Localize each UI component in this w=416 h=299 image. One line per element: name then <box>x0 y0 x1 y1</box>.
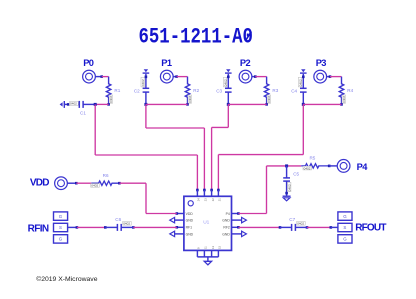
svg-text:P4: P4 <box>226 212 230 216</box>
wire C4 to R4 <box>303 103 341 105</box>
capacitor C4 <box>301 69 305 72</box>
svg-text:15: 15 <box>218 246 222 249</box>
RFIN pad S <box>54 223 68 231</box>
svg-text:21: 21 <box>218 198 222 201</box>
svg-text:G: G <box>343 214 347 219</box>
svg-text:C2: C2 <box>134 89 140 94</box>
svg-text:GND: GND <box>222 232 230 236</box>
wire P2 net horizontal <box>212 126 229 128</box>
svg-text:RFIN: RFIN <box>28 224 49 235</box>
U1 bottom pin 11 <box>203 250 205 257</box>
wire R6 to U1 VDD <box>119 182 146 184</box>
svg-text:0402: 0402 <box>304 166 311 170</box>
ground (C5) <box>283 196 291 197</box>
svg-text:RF2: RF2 <box>223 226 230 230</box>
node P4/C5 junction <box>285 164 288 167</box>
wire P2 net vertical <box>227 104 229 127</box>
U1 bottom pin 9 <box>196 250 198 257</box>
connector P1 <box>160 70 173 83</box>
svg-text:0402: 0402 <box>287 184 291 191</box>
RFIN pad G <box>54 235 68 243</box>
wire P0 to R1 <box>102 76 109 78</box>
svg-text:13: 13 <box>211 246 215 249</box>
svg-text:U1: U1 <box>203 220 209 226</box>
wire P0 net to U1 pin <box>196 155 198 190</box>
U1 pin GND (left lower) <box>175 233 184 235</box>
U1 pin VDD (left) <box>177 213 184 215</box>
capacitor C7 <box>279 226 282 229</box>
svg-text:0402: 0402 <box>298 79 302 86</box>
svg-text:G: G <box>59 237 63 242</box>
wire C2 to R2 <box>146 103 188 105</box>
svg-text:GND: GND <box>186 219 194 223</box>
connector P2 <box>239 70 252 83</box>
resistor R2 <box>185 77 189 105</box>
U1 pin RF1 <box>177 226 184 228</box>
wire VDD to U1 pin <box>146 213 177 215</box>
wire P2 to R3 <box>255 76 266 78</box>
capacitor C5 <box>286 166 288 178</box>
svg-text:S: S <box>59 225 62 230</box>
wire P4 net vertical <box>266 166 268 214</box>
connector P0 <box>83 70 96 83</box>
svg-text:G: G <box>59 214 63 219</box>
RFOUT pad G <box>338 212 352 220</box>
svg-text:11: 11 <box>204 246 208 249</box>
op-amp U1 body <box>184 196 232 250</box>
svg-text:P3: P3 <box>316 58 327 68</box>
wire P0 net horizontal <box>95 154 197 156</box>
RFIN pad G <box>54 212 68 220</box>
svg-text:0402: 0402 <box>342 96 346 103</box>
svg-text:651-1211-A0: 651-1211-A0 <box>139 25 253 51</box>
svg-text:0402: 0402 <box>297 221 304 225</box>
wire C3 to R3 <box>228 103 266 105</box>
capacitor C3 <box>226 69 230 72</box>
U1 top pin 23 <box>203 189 206 192</box>
svg-text:R4: R4 <box>347 88 353 93</box>
svg-text:R1: R1 <box>114 88 120 93</box>
svg-text:GND: GND <box>222 219 230 223</box>
svg-text:C4: C4 <box>291 89 297 94</box>
svg-text:C6: C6 <box>115 217 121 222</box>
wire U1 RF2 to C7 <box>238 226 280 228</box>
wire P1 net to U1 pin <box>203 128 205 190</box>
svg-text:R3: R3 <box>272 88 278 93</box>
svg-text:0402: 0402 <box>223 79 227 86</box>
svg-text:P0: P0 <box>83 58 94 68</box>
connector P4 <box>329 165 337 167</box>
svg-text:23: 23 <box>204 198 208 201</box>
svg-text:C5: C5 <box>293 172 299 177</box>
U1 pin RF2 <box>232 226 239 228</box>
wire RFOUT S pad stub <box>331 226 338 228</box>
node P0/C1/R1 junction <box>94 103 97 106</box>
wire P3 net to U1 pin <box>217 155 219 190</box>
resistor R5 <box>301 164 329 168</box>
U1 top pin 24 <box>196 189 199 192</box>
resistor R1 <box>106 77 110 105</box>
wire U1 P4 pin horizontal <box>238 213 266 215</box>
svg-text:C1: C1 <box>80 111 86 116</box>
U1 pin P4 (right) <box>232 213 239 215</box>
connector VDD <box>55 177 68 190</box>
svg-text:RFOUT: RFOUT <box>355 223 386 234</box>
U1 bottom pin 15 <box>217 250 219 257</box>
wire P1 net horizontal <box>146 127 205 129</box>
wire P1 to R2 <box>177 76 188 78</box>
wire C7 to RFOUT <box>307 226 331 228</box>
node P3/C4/R4 junction <box>302 103 305 106</box>
svg-text:0402: 0402 <box>109 96 113 103</box>
ground <box>204 261 211 265</box>
wire RFIN to C6 <box>77 226 105 228</box>
node P1/C2/R2 junction <box>144 103 147 106</box>
svg-text:©2019 X-Microwave: ©2019 X-Microwave <box>36 275 98 283</box>
svg-text:0402: 0402 <box>91 184 98 188</box>
svg-text:R2: R2 <box>193 88 199 93</box>
wire VDD to R6 <box>76 182 91 184</box>
wire P1 net vertical <box>145 104 147 128</box>
svg-text:C3: C3 <box>216 89 222 94</box>
svg-text:R6: R6 <box>103 173 109 178</box>
svg-text:0402: 0402 <box>188 96 192 103</box>
svg-text:0402: 0402 <box>267 96 271 103</box>
wire RFIN S pad stub <box>68 226 77 228</box>
U1 pin GND (right upper) <box>232 219 242 221</box>
capacitor C1 <box>60 102 63 106</box>
capacitor C2 <box>144 69 148 72</box>
svg-text:C7: C7 <box>289 217 295 222</box>
svg-text:0402: 0402 <box>123 221 130 225</box>
U1 top pin 21 <box>217 189 220 192</box>
connector P3 <box>314 70 327 83</box>
svg-text:24: 24 <box>197 198 201 201</box>
wire C6 to U1 RF1 <box>133 226 177 228</box>
svg-text:R5: R5 <box>309 156 315 161</box>
U1 pin GND (right lower) <box>232 233 242 235</box>
wire P3 to R4 <box>330 76 342 78</box>
svg-text:0402: 0402 <box>141 79 145 86</box>
svg-text:GND: GND <box>186 232 194 236</box>
svg-text:P2: P2 <box>240 58 251 68</box>
svg-text:VDD: VDD <box>186 212 194 216</box>
wire P2 net to U1 pin <box>211 127 213 190</box>
wire P4 net to R5 <box>267 165 302 167</box>
svg-text:P4: P4 <box>357 162 369 172</box>
RFOUT pad G <box>338 235 352 243</box>
resistor R3 <box>264 77 268 105</box>
resistor R4 <box>339 77 343 105</box>
svg-text:P1: P1 <box>161 58 172 68</box>
wire P3 net horizontal <box>218 154 303 156</box>
RFOUT pad S <box>338 223 352 231</box>
svg-text:22: 22 <box>211 198 215 201</box>
node P2/C3/R3 junction <box>227 103 230 106</box>
capacitor C6 <box>104 226 107 229</box>
U1 pin GND (left upper) <box>175 219 184 221</box>
wire P3 net vertical <box>302 104 304 154</box>
U1 bottom pin 13 <box>211 250 213 257</box>
svg-text:VDD: VDD <box>30 177 49 188</box>
wire C1 to R1 <box>95 103 108 105</box>
svg-text:RF1: RF1 <box>186 226 193 230</box>
ground bus under U1 <box>197 256 218 258</box>
wire P0 net vertical <box>94 104 96 155</box>
svg-text:S: S <box>343 225 346 230</box>
U1 top pin 22 <box>210 189 213 192</box>
svg-text:G: G <box>343 237 347 242</box>
resistor R6 <box>91 181 119 185</box>
wire VDD vertical <box>145 183 147 213</box>
svg-text:0402: 0402 <box>70 102 77 106</box>
